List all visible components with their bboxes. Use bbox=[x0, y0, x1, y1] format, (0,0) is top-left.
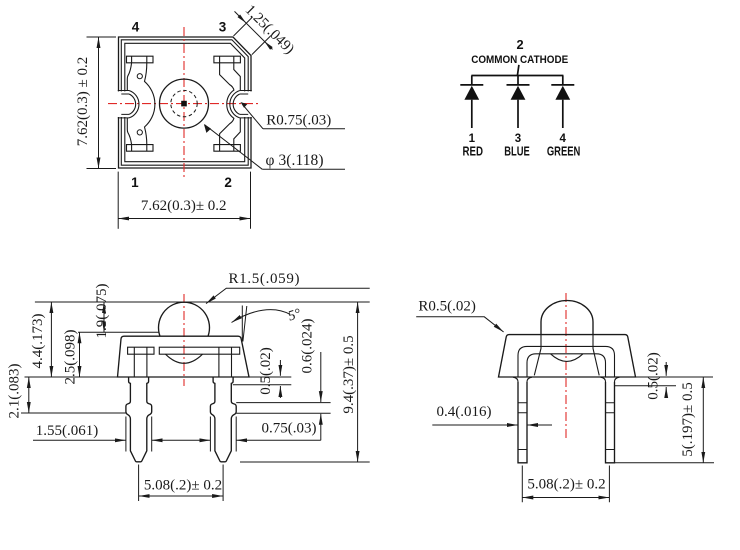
svg-text:φ 3(.118): φ 3(.118) bbox=[266, 152, 324, 169]
node reflector cup arc bbox=[551, 354, 584, 362]
label R0.75 leader bbox=[240, 102, 345, 129]
node right notch arc outer bbox=[230, 91, 240, 118]
wire lead frame plate left bbox=[128, 347, 154, 354]
dimension 4.4 bbox=[50, 302, 52, 377]
wire top reference line bbox=[35, 301, 370, 303]
node centerline red vertical bbox=[183, 294, 185, 386]
wire leg2 fillets bbox=[601, 377, 620, 382]
wire left notch mouth lines bbox=[118, 91, 129, 118]
node left notch arc outer bbox=[129, 91, 139, 118]
wire package middle square bbox=[121, 40, 248, 165]
wire lead frame tab pin3 bbox=[214, 56, 241, 63]
wire drop red diode bbox=[471, 76, 473, 85]
wire bulge top reference line right bbox=[236, 402, 330, 404]
wire drop blue diode bbox=[517, 76, 519, 85]
wire lead frame tab pin2 bbox=[214, 145, 241, 152]
label 5 degree arc bbox=[232, 310, 291, 323]
wire collar reference line bbox=[615, 385, 677, 387]
wire lead frame tab pin4 bbox=[127, 56, 154, 63]
wire lead frame arch outer bbox=[518, 346, 615, 377]
svg-text:7.62(0.3)± 0.2: 7.62(0.3)± 0.2 bbox=[141, 198, 227, 214]
dimension 0.5 arrows bbox=[665, 362, 667, 376]
node epoxy dome bbox=[159, 302, 210, 336]
svg-text:GREEN: GREEN bbox=[547, 145, 581, 159]
dimension 2.1 bbox=[28, 377, 30, 413]
wire anode 3 bbox=[517, 100, 519, 128]
wire anode 1 bbox=[471, 100, 473, 128]
wire body bottom reference line bbox=[25, 376, 292, 378]
node centerline red crosshair horizontal bbox=[108, 103, 259, 105]
svg-text:4.4(.173): 4.4(.173) bbox=[30, 314, 46, 369]
dimension 5.08 bbox=[139, 465, 224, 502]
dimension 5(.197) bbox=[702, 377, 704, 463]
svg-text:4: 4 bbox=[559, 133, 566, 145]
wire leg1 crimp ticks bbox=[518, 403, 527, 450]
diode D3 green triangle bbox=[555, 86, 570, 100]
wire bulge extension lines leg1 bbox=[126, 417, 152, 452]
node left notch erase bbox=[117, 91, 127, 117]
node inner die circle dashed bbox=[171, 90, 197, 116]
node center die square bbox=[181, 101, 187, 107]
wire collar reference line right bbox=[233, 384, 291, 386]
svg-text:3: 3 bbox=[515, 133, 521, 145]
svg-text:R0.5(.02): R0.5(.02) bbox=[418, 298, 476, 314]
diode D3 green cathode bar bbox=[551, 84, 574, 86]
node LED lens circle bbox=[160, 79, 209, 128]
wire lead frame tab pin1 bbox=[127, 145, 154, 152]
svg-text:1: 1 bbox=[469, 133, 476, 145]
svg-text:COMMON CATHODE: COMMON CATHODE bbox=[471, 54, 568, 66]
svg-text:R1.5(.059): R1.5(.059) bbox=[229, 271, 300, 287]
diode D1 red triangle bbox=[464, 86, 479, 100]
lead leg2 outline bbox=[210, 377, 236, 462]
svg-text:0.6(.024): 0.6(.024) bbox=[300, 319, 316, 374]
svg-text:5.08(.2)± 0.2: 5.08(.2)± 0.2 bbox=[527, 477, 605, 493]
node left notch arc inner bbox=[129, 94, 136, 114]
svg-text:R0.75(.03): R0.75(.03) bbox=[266, 113, 331, 129]
svg-text:2: 2 bbox=[516, 37, 523, 52]
wire right lead frame wing bracket bbox=[220, 63, 241, 145]
node right notch arc inner bbox=[233, 94, 240, 114]
svg-text:BLUE: BLUE bbox=[504, 145, 530, 159]
dimension 0.5 arrows bbox=[279, 360, 281, 376]
dimension chamfer 1.25 bbox=[234, 11, 273, 54]
lead leg1 outline bbox=[126, 377, 152, 462]
wire leg2 in body bbox=[219, 347, 232, 377]
wire cathode tap bbox=[517, 65, 519, 76]
dimension left 7.62 bbox=[87, 37, 117, 169]
wire lead frame plate right bbox=[159, 347, 239, 354]
node right notch erase bbox=[243, 91, 253, 117]
svg-text:0.5(.02): 0.5(.02) bbox=[646, 352, 662, 400]
dimension 0.4 arrows bbox=[432, 424, 518, 426]
node reflector cup arc bbox=[166, 354, 203, 363]
svg-text:3: 3 bbox=[219, 20, 227, 35]
dimension 0.75 arrow bbox=[236, 439, 321, 441]
svg-text:0.5(.02): 0.5(.02) bbox=[258, 347, 274, 395]
node package body bbox=[118, 336, 250, 377]
wire leg tip reference line bbox=[615, 462, 715, 464]
svg-text:9.4(.37)± 0.5: 9.4(.37)± 0.5 bbox=[341, 335, 357, 413]
svg-text:1.9(.075): 1.9(.075) bbox=[94, 284, 110, 339]
node centerline red crosshair vertical bbox=[183, 27, 185, 179]
wire leg tip reference line bbox=[240, 461, 370, 463]
svg-text:2.5(.098): 2.5(.098) bbox=[63, 330, 79, 385]
wire package inner square bbox=[125, 43, 245, 161]
dimension middle arrows bbox=[152, 439, 211, 441]
svg-text:2: 2 bbox=[224, 175, 232, 190]
dimension 1.55 arrow bbox=[33, 439, 126, 441]
label R1.5 leader bbox=[206, 288, 370, 303]
diode D2 blue triangle bbox=[511, 86, 526, 100]
svg-text:2.1(.083): 2.1(.083) bbox=[7, 364, 23, 419]
label phi3 leader bbox=[204, 124, 345, 169]
node epoxy dome bbox=[541, 301, 593, 335]
svg-text:1.25(.049): 1.25(.049) bbox=[242, 2, 298, 58]
diode D2 blue cathode bar bbox=[507, 84, 530, 86]
lead leg1 flat bbox=[518, 382, 527, 463]
svg-text:1.55(.061): 1.55(.061) bbox=[36, 423, 99, 439]
svg-text:7.62(0.3) ± 0.2: 7.62(0.3) ± 0.2 bbox=[75, 57, 91, 146]
svg-text:5(.197)± 0.5: 5(.197)± 0.5 bbox=[680, 382, 696, 456]
label R0.5 leader bbox=[416, 317, 503, 332]
wire reflector cup sides bbox=[534, 335, 599, 376]
wire leg1 fillets bbox=[513, 377, 532, 382]
svg-text:RED: RED bbox=[463, 145, 484, 159]
wire body bottom extension line bbox=[636, 376, 714, 378]
wire lead frame arch inner bbox=[527, 354, 606, 377]
wire cathode bus bbox=[471, 75, 563, 77]
wire leg1 in body bbox=[134, 347, 147, 377]
wire dome base reference line bbox=[78, 331, 159, 333]
svg-text:4: 4 bbox=[132, 20, 140, 35]
wire bulge bottom reference line right bbox=[236, 412, 330, 414]
wire left lead frame wing crescent bbox=[127, 63, 155, 145]
dimension bottom 7.62 bbox=[118, 172, 250, 229]
wire drop green diode bbox=[562, 76, 564, 85]
wire crimp bottom reference line left bbox=[21, 412, 126, 414]
dimension 0.6 arrows bbox=[320, 352, 322, 402]
dimension 9.4 bbox=[357, 302, 359, 462]
svg-text:0.4(.016): 0.4(.016) bbox=[437, 404, 492, 420]
dimension 1.9 bbox=[103, 302, 105, 332]
node left wing hole bottom bbox=[137, 130, 142, 135]
wire leg2 crimp ticks bbox=[606, 403, 615, 450]
node package body bbox=[499, 335, 636, 377]
node left wing hole top bbox=[137, 74, 142, 79]
wire bulge extension lines leg2 bbox=[210, 417, 236, 452]
svg-text:0.75(.03): 0.75(.03) bbox=[262, 421, 317, 437]
dimension 5.08 bbox=[522, 466, 609, 503]
wire right notch mouth lines bbox=[240, 91, 252, 118]
diode D1 red cathode bar bbox=[460, 84, 483, 86]
svg-text:1: 1 bbox=[131, 175, 139, 190]
svg-text:5.08(.2)± 0.2: 5.08(.2)± 0.2 bbox=[144, 478, 222, 494]
dimension 2.5 bbox=[79, 332, 81, 377]
wire package outer square with chamfer bbox=[119, 37, 252, 168]
lead leg2 flat bbox=[606, 382, 615, 463]
wire anode 4 bbox=[562, 100, 564, 128]
node 5 degree wedge bbox=[242, 306, 247, 342]
node centerline red vertical bbox=[565, 293, 567, 438]
